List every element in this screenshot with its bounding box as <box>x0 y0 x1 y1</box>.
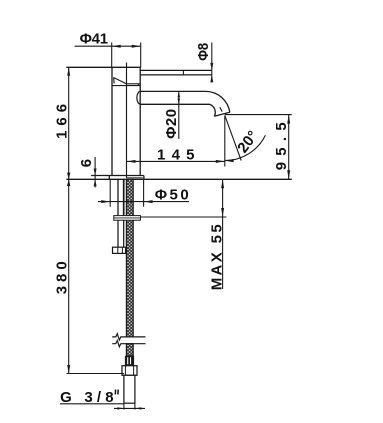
thread diameter left extension <box>123 403 125 409</box>
faucet body top edge + 166 extension line <box>66 66 141 68</box>
svg-text:Φ8: Φ8 <box>195 43 212 61</box>
svg-text:166: 166 <box>53 104 70 139</box>
dimension MAX55 vertical line <box>222 179 224 289</box>
stud nut facet lines <box>118 247 123 253</box>
mounting washer plate <box>114 216 141 221</box>
dimension 95.5 arrows <box>287 115 290 180</box>
dimension 6 extension line <box>91 175 109 177</box>
spout aerator tick <box>220 107 222 111</box>
base flange left edge <box>108 176 110 180</box>
connector hex nut <box>122 366 137 376</box>
hose lower segment <box>126 344 133 356</box>
dimension Ø20 vertical line <box>178 91 180 138</box>
angle arc arrow <box>225 159 234 162</box>
lever rod joint tick <box>182 70 184 75</box>
lever base inner bar line <box>127 83 141 85</box>
lever base inner bar tick <box>137 84 139 86</box>
dimension Ø50 left extension <box>109 179 111 206</box>
stud nut <box>113 247 126 253</box>
inch marks for G 3/8 <box>115 390 118 395</box>
dimension 145 arrows <box>127 160 225 163</box>
svg-text:95.5: 95.5 <box>273 122 290 170</box>
mounting washer midline <box>114 217 141 219</box>
dimension MAX55 arrows <box>221 179 224 217</box>
dimension Ø50 line <box>98 201 189 203</box>
dimension 6 arrows <box>94 169 97 187</box>
dimension 6 vertical line <box>94 157 96 188</box>
dimension 95.5 vertical line <box>288 115 290 180</box>
hose break upper line with zigzag <box>112 334 145 340</box>
base flange top <box>91 175 144 177</box>
spout tip vertical extension line <box>224 115 226 166</box>
water stream 20 degree line <box>225 115 241 160</box>
crimp ferrule <box>125 356 134 366</box>
spout root half-ellipse <box>137 91 141 104</box>
svg-text:145: 145 <box>157 147 195 164</box>
G3/8 leader underline <box>60 403 124 405</box>
dimension Ø41 right extension <box>140 43 142 68</box>
mounting stud upper left edge <box>117 179 119 216</box>
svg-text:380: 380 <box>54 261 71 294</box>
hose break lower line with zigzag <box>112 341 145 347</box>
mounting stud lower right edge <box>123 220 125 247</box>
spout bottom line and inner bend <box>140 104 215 116</box>
svg-text:Φ50: Φ50 <box>155 187 189 204</box>
washer extension line for MAX55 <box>141 216 227 218</box>
mounting stud upper right edge <box>123 179 125 216</box>
svg-text:6: 6 <box>78 159 95 167</box>
base flange inner step line <box>127 177 143 179</box>
base flange right edge <box>143 176 145 180</box>
dimension Ø41 line <box>75 45 141 47</box>
svg-text:G 3/8: G 3/8 <box>60 389 114 406</box>
spout tip face <box>214 112 230 116</box>
thread diameter dimension line <box>114 407 145 409</box>
lever base bottom joint line <box>112 85 140 87</box>
faucet body centerline <box>126 63 128 178</box>
lever rod top <box>140 69 212 71</box>
spout tip horizontal extension line <box>225 114 292 116</box>
mounting stud lower left edge <box>117 220 119 247</box>
dimension 166 arrows <box>67 67 70 179</box>
dimension Ø50 arrows <box>101 200 152 203</box>
thread diameter right extension <box>134 403 136 409</box>
dimension 380 arrows <box>67 179 70 373</box>
lever tip tick <box>113 78 115 84</box>
dimension 145 line <box>127 160 225 162</box>
dimension Ø8 arrows <box>210 63 213 83</box>
dimension Ø50 right extension <box>143 179 145 206</box>
hex nut facet lines <box>125 366 133 376</box>
counter top line <box>66 178 291 180</box>
spout top line and outer bend <box>140 91 229 112</box>
hose upper segment <box>126 179 133 337</box>
ferrule inner slits <box>128 357 131 364</box>
faucet body left edge <box>111 67 113 175</box>
dimension Ø41 arrows <box>112 45 141 48</box>
dimension Ø20 arrows <box>177 91 180 104</box>
angle dimension arc <box>225 135 266 160</box>
lever rod bottom <box>140 74 212 76</box>
dimension Ø8 vertical line <box>211 43 213 82</box>
svg-text:Φ41: Φ41 <box>80 31 109 48</box>
dimension 166/380 shared vertical line <box>68 67 70 373</box>
svg-text:Φ20: Φ20 <box>163 109 180 139</box>
G3/8 threaded tail <box>124 375 135 403</box>
faucet body right edge <box>139 67 141 175</box>
dimension 380 bottom extension line <box>67 373 125 375</box>
dimension Ø41 left extension <box>111 43 113 68</box>
lever diagonal <box>114 78 127 84</box>
thread diameter arrows <box>117 407 141 409</box>
